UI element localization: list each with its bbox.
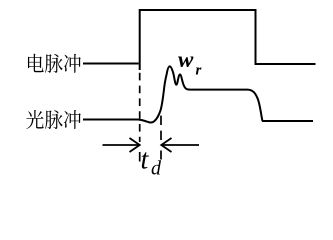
svg-text:t: t	[141, 145, 150, 176]
svg-text:d: d	[151, 157, 162, 179]
svg-text:r: r	[196, 62, 202, 78]
svg-text:w: w	[178, 47, 194, 72]
